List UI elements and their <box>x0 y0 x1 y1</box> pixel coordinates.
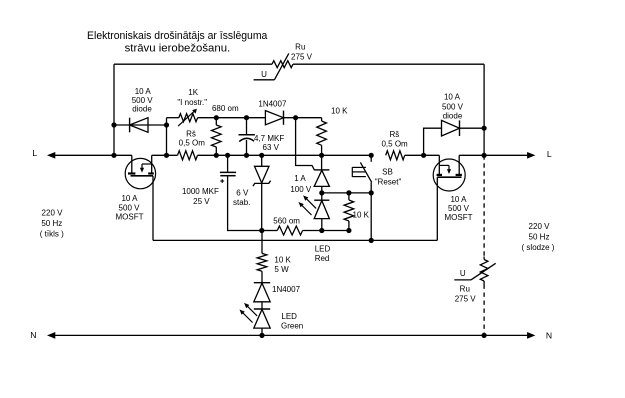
node 560om row / main branch <box>259 228 264 233</box>
mosfet Q2 body bar <box>439 164 449 166</box>
svg-text:10 A: 10 A <box>121 194 138 203</box>
svg-text:1000 MKF: 1000 MKF <box>182 187 219 196</box>
wire top rail left segment <box>114 63 272 65</box>
wire 560om row left <box>262 230 278 232</box>
wire 560om row right <box>303 230 349 232</box>
wire row2 to LED red <box>321 193 323 200</box>
mosfet Q1 body bar <box>142 163 152 165</box>
zener VD1 top lead <box>261 155 263 166</box>
svg-text:220 V: 220 V <box>529 222 551 231</box>
wire SB junction down to gate row <box>370 193 372 241</box>
switch SB actuator <box>351 167 353 177</box>
wire branch down from 560om row <box>261 231 263 254</box>
svg-text:N: N <box>546 330 552 340</box>
varistor Ru2 zigzag <box>480 260 488 282</box>
node row2 / 10K <box>346 190 351 195</box>
node pot row / 4,7MKF <box>244 115 249 120</box>
mosfet Q1 source contact bar <box>128 172 135 174</box>
mosfet Q1 channel gate line <box>131 175 154 177</box>
wire x295 down to 1A diode <box>296 118 315 170</box>
node diode row / riser x166 <box>164 122 169 127</box>
mosfet Q1 drain contact bar <box>148 172 154 174</box>
N terminal arrow left <box>48 333 55 339</box>
L terminal arrow left <box>48 152 55 158</box>
wire L line middle segment <box>198 154 372 156</box>
node right rail / diode row <box>482 126 487 131</box>
switch SB blade <box>360 162 371 182</box>
node L / SB switch <box>369 153 374 158</box>
wire row2 <box>322 192 371 194</box>
mosfet Q2 channel gate line <box>437 176 461 178</box>
node row2 / led red <box>319 190 324 195</box>
mosfet Q2 left lead <box>438 155 440 175</box>
svg-text:MOSFT: MOSFT <box>116 212 144 221</box>
wire diode D4 to row2 <box>321 186 323 193</box>
svg-text:1 A: 1 A <box>294 174 306 183</box>
node N / dashed rail <box>482 333 487 338</box>
LED red emission arrows <box>302 206 312 216</box>
svg-text:1K: 1K <box>188 88 198 97</box>
node L / 4,7MKF <box>244 153 249 158</box>
svg-text:500 V: 500 V <box>442 102 464 111</box>
svg-text:63 V: 63 V <box>263 143 280 152</box>
switch SB bottom lead <box>370 182 372 193</box>
wire diode D1 row <box>114 124 167 126</box>
wire diode D2 to right rail <box>460 127 485 129</box>
svg-text:stab.: stab. <box>233 198 250 207</box>
varistor Ru1 strike line <box>274 53 288 79</box>
svg-text:diode: diode <box>443 112 463 121</box>
mosfet Q2 body arrow <box>448 165 450 170</box>
LED green diode <box>254 308 270 310</box>
node left rail / diode row <box>111 122 116 127</box>
node L / diode2 branch <box>421 153 426 158</box>
varistor Ru1 U foot <box>254 79 275 81</box>
mosfet Q1 gate lead down <box>152 176 154 241</box>
svg-text:6 V: 6 V <box>236 188 249 197</box>
capacitor C2 bottom lead <box>246 140 248 155</box>
svg-text:680 om: 680 om <box>212 104 239 113</box>
mosfet Q1 body arrow <box>141 164 143 169</box>
diode D5 1N4007 <box>254 282 270 284</box>
wire riser x166 <box>166 118 168 156</box>
wire diode D2 branch <box>424 128 442 155</box>
N terminal arrow right <box>527 333 534 339</box>
capacitor C2 bottom curved plate <box>239 138 254 141</box>
wire gate row <box>153 239 437 241</box>
svg-text:275 V: 275 V <box>291 53 313 62</box>
resistor Rs2 0,5 Om zigzag <box>386 151 405 160</box>
svg-text:Ru: Ru <box>295 42 305 51</box>
svg-text:10 A: 10 A <box>450 195 467 204</box>
svg-text:4,7 MKF: 4,7 MKF <box>254 134 284 143</box>
resistor R5 10K leads <box>348 193 350 200</box>
wire pot row right <box>284 117 322 119</box>
resistor R4 560om zigzag <box>277 226 302 235</box>
svg-text:Green: Green <box>281 322 303 331</box>
svg-text:"Reset": "Reset" <box>375 177 402 186</box>
svg-text:275 V: 275 V <box>455 294 477 303</box>
svg-text:Red: Red <box>315 254 330 263</box>
svg-text:50 Hz: 50 Hz <box>529 233 550 242</box>
svg-text:500 V: 500 V <box>448 204 470 213</box>
node L / 1000MKF <box>225 153 230 158</box>
resistor R3 10K zigzag <box>317 121 327 145</box>
potentiometer R1 arrow <box>178 111 195 126</box>
svg-text:strāvu ierobežošanu.: strāvu ierobežošanu. <box>125 43 231 55</box>
wire pot row left <box>167 117 179 119</box>
node N / led green branch <box>259 333 264 338</box>
svg-text:220 V: 220 V <box>42 209 64 218</box>
zener VD1 triangle <box>255 166 270 183</box>
zener VD1 bar <box>253 181 271 187</box>
node gate row / SB branch <box>369 238 374 243</box>
mosfet Q1 source lead <box>131 155 133 173</box>
wire dashed rail lower <box>483 285 485 336</box>
svg-text:N: N <box>30 330 36 340</box>
svg-text:10 K: 10 K <box>331 106 348 115</box>
capacitor C1 plus sign <box>220 180 224 182</box>
mosfet Q1 circle <box>125 158 155 188</box>
mosfet Q2 circle <box>433 159 465 191</box>
wire L line east segment <box>459 154 527 156</box>
switch SB stub <box>370 155 372 162</box>
svg-text:25 V: 25 V <box>193 197 210 206</box>
svg-text:( tīkls ): ( tīkls ) <box>40 230 64 239</box>
svg-text:Rš: Rš <box>390 130 400 139</box>
svg-text:1N4007: 1N4007 <box>258 100 287 109</box>
resistor R5 10K zigzag <box>344 200 354 221</box>
svg-text:U: U <box>460 269 466 278</box>
varistor Ru1 zigzag <box>272 61 293 68</box>
svg-text:L: L <box>32 148 37 158</box>
wire L line west segment <box>55 154 132 156</box>
svg-text:0,5 Om: 0,5 Om <box>179 139 206 148</box>
svg-text:diode: diode <box>132 105 152 114</box>
svg-text:Rš: Rš <box>186 129 196 138</box>
node pot row / down wire x295 <box>293 115 298 120</box>
resistor R6 10K 5W zigzag <box>257 253 267 271</box>
svg-text:560 om: 560 om <box>273 217 300 226</box>
svg-text:1N4007: 1N4007 <box>272 285 301 294</box>
svg-text:0,5 Om: 0,5 Om <box>381 139 408 148</box>
svg-text:10 K: 10 K <box>353 211 370 220</box>
LED red diode <box>314 199 329 201</box>
svg-text:10 A: 10 A <box>135 87 152 96</box>
node L / 680om <box>214 153 219 158</box>
node 560om row / led red <box>319 228 324 233</box>
potentiometer R1 1K zigzag <box>179 114 198 122</box>
svg-text:10 A: 10 A <box>444 93 461 102</box>
diode D2 10A 500V <box>442 120 460 136</box>
wire dashed rail upper <box>483 155 485 256</box>
resistor R2 680om leads <box>215 118 217 125</box>
capacitor C1 bottom lead and wire to 560om row <box>228 176 262 231</box>
diode D3 1N4007 <box>265 111 283 125</box>
svg-text:10 K: 10 K <box>274 256 291 265</box>
wire LED red to 560om row <box>321 219 323 231</box>
svg-text:"I nostr.": "I nostr." <box>177 98 207 107</box>
mosfet Q2 gate lead down <box>436 177 438 240</box>
mosfet Q2 right lead <box>458 155 460 175</box>
mosfet Q1 drain lead <box>151 155 153 173</box>
svg-text:LED: LED <box>281 312 297 321</box>
wire LED green to N line <box>261 328 263 335</box>
node L / 10K-1A branch <box>319 153 324 158</box>
svg-text:500 V: 500 V <box>119 203 141 212</box>
capacitor C2 top plate <box>239 134 255 136</box>
varistor Ru2 U foot <box>454 279 471 281</box>
svg-text:Ru: Ru <box>460 285 470 294</box>
wire right rail vertical <box>483 64 485 155</box>
wire N line <box>55 334 528 336</box>
svg-text:U: U <box>261 70 267 79</box>
capacitor C1 plates <box>220 171 236 173</box>
mosfet Q2 left contact bar <box>437 174 442 176</box>
wire L line segment Rs2 to mosfet2 <box>405 154 440 156</box>
node left rail / L line <box>111 153 116 158</box>
wire left rail vertical <box>113 64 115 155</box>
zener VD1 bottom lead <box>261 183 263 230</box>
svg-text:50 Hz: 50 Hz <box>41 219 62 228</box>
wire D5 to LED green <box>261 302 263 309</box>
svg-text:( slodze ): ( slodze ) <box>522 243 555 252</box>
capacitor C2 4,7MKF top lead <box>246 118 248 135</box>
wire L line segment mosfet1 to Rs1 <box>152 154 178 156</box>
diode D4 1A 100V <box>314 169 329 171</box>
resistor Rs1 0,5 Om zigzag <box>178 151 198 160</box>
node row2 / SB <box>369 190 374 195</box>
resistor R3 10K leads <box>321 118 323 121</box>
svg-text:Elektroniskais drošinātājs ar: Elektroniskais drošinātājs ar īsslēguma <box>87 30 268 42</box>
node pot row / 680om <box>214 115 219 120</box>
node 560om row / 10K <box>346 228 351 233</box>
svg-text:SB: SB <box>382 167 393 176</box>
wire L to diode D4 <box>321 155 323 170</box>
capacitor C1 1000MKF top lead <box>227 155 229 172</box>
resistor R2 680om zigzag <box>212 125 222 147</box>
svg-text:100 V: 100 V <box>290 185 312 194</box>
wire R6 to diode D5 <box>261 271 263 282</box>
diode D1 10A 500V <box>130 118 148 133</box>
wire top rail right segment <box>293 63 484 65</box>
svg-text:L: L <box>547 149 552 159</box>
L terminal arrow right <box>527 152 534 158</box>
node L / zener <box>259 153 264 158</box>
svg-text:MOSFT: MOSFT <box>445 213 473 222</box>
wire pot row middle <box>198 117 266 119</box>
svg-text:LED: LED <box>315 244 331 253</box>
LED green emission arrows <box>243 313 253 323</box>
node L / riser x166 <box>164 153 169 158</box>
node right rail / L line <box>482 153 487 158</box>
varistor Ru2 strike line <box>471 263 496 280</box>
svg-text:5 W: 5 W <box>274 265 289 274</box>
mosfet Q2 right contact bar <box>456 174 462 176</box>
